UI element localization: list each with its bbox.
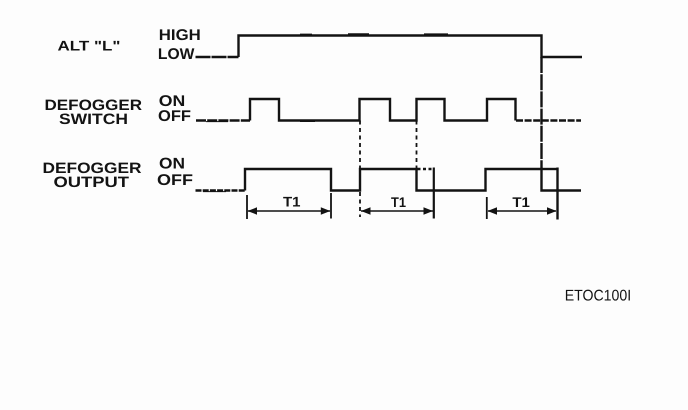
wire defogger output waveform — [245, 169, 581, 191]
arrowhead T1 pulse3 right — [547, 207, 557, 214]
svg-text:OUTPUT: OUTPUT — [54, 174, 130, 191]
svg-text:ALT "L": ALT "L" — [58, 38, 121, 54]
arrowhead T1 pulse2 left — [361, 207, 371, 214]
wire ALT L waveform — [239, 36, 583, 58]
wire T1 extent line left pulse3 — [486, 197, 488, 219]
arrowhead T1 pulse2 right — [424, 207, 434, 214]
svg-text:SWITCH: SWITCH — [59, 111, 128, 128]
wire T1 extent line right pulse1 — [330, 193, 332, 219]
wire scan thickening on switch off line — [206, 121, 315, 123]
wire T1 arrow line pulse2 — [361, 210, 433, 212]
svg-text:HIGH: HIGH — [159, 27, 201, 44]
arrowhead T1 pulse1 left — [248, 207, 258, 214]
wire output T1 dashed on-level continuation pulse2 — [418, 168, 435, 170]
arrowhead T1 pulse3 left — [488, 207, 498, 214]
wire dashed vertical at switch pulse2 rise x=360 — [359, 121, 361, 170]
svg-text:ETOC100I: ETOC100I — [565, 288, 632, 305]
wire scan thickening on output off lead — [203, 191, 226, 193]
svg-text:OFF: OFF — [157, 172, 193, 189]
svg-text:LOW: LOW — [158, 46, 195, 63]
wire defogger output off lead — [196, 189, 246, 191]
svg-text:T1: T1 — [391, 194, 406, 210]
wire defogger switch pulses — [250, 99, 516, 121]
wire T1 extent line left pulse1 — [246, 195, 248, 219]
svg-text:ON: ON — [159, 156, 185, 173]
wire defogger switch off tail dashed — [516, 119, 581, 121]
arrowhead T1 pulse1 right — [321, 207, 331, 214]
wire T1 extent line right pulse3 — [556, 168, 558, 220]
wire scan thickening on ALT L high line — [300, 33, 448, 35]
wire output on-level continuation pulse3 — [542, 168, 558, 170]
wire ALT L low lead — [196, 56, 239, 58]
wire T1 arrow line pulse3 — [488, 210, 556, 212]
svg-text:T1: T1 — [512, 194, 530, 210]
wire T1 arrow line pulse1 — [248, 210, 330, 212]
svg-text:T1: T1 — [283, 194, 301, 210]
wire defogger switch waveform — [196, 119, 250, 121]
wire long vertical line at ALT L fall x=541.5 — [540, 57, 542, 169]
wire dashed vertical at switch pulse3 rise x=416.5 — [416, 121, 418, 170]
wire dashed vertical below output pulse2 rise x=360 — [359, 192, 361, 217]
wire T1 extent line right pulse2 — [433, 168, 435, 219]
svg-text:OFF: OFF — [158, 108, 191, 125]
